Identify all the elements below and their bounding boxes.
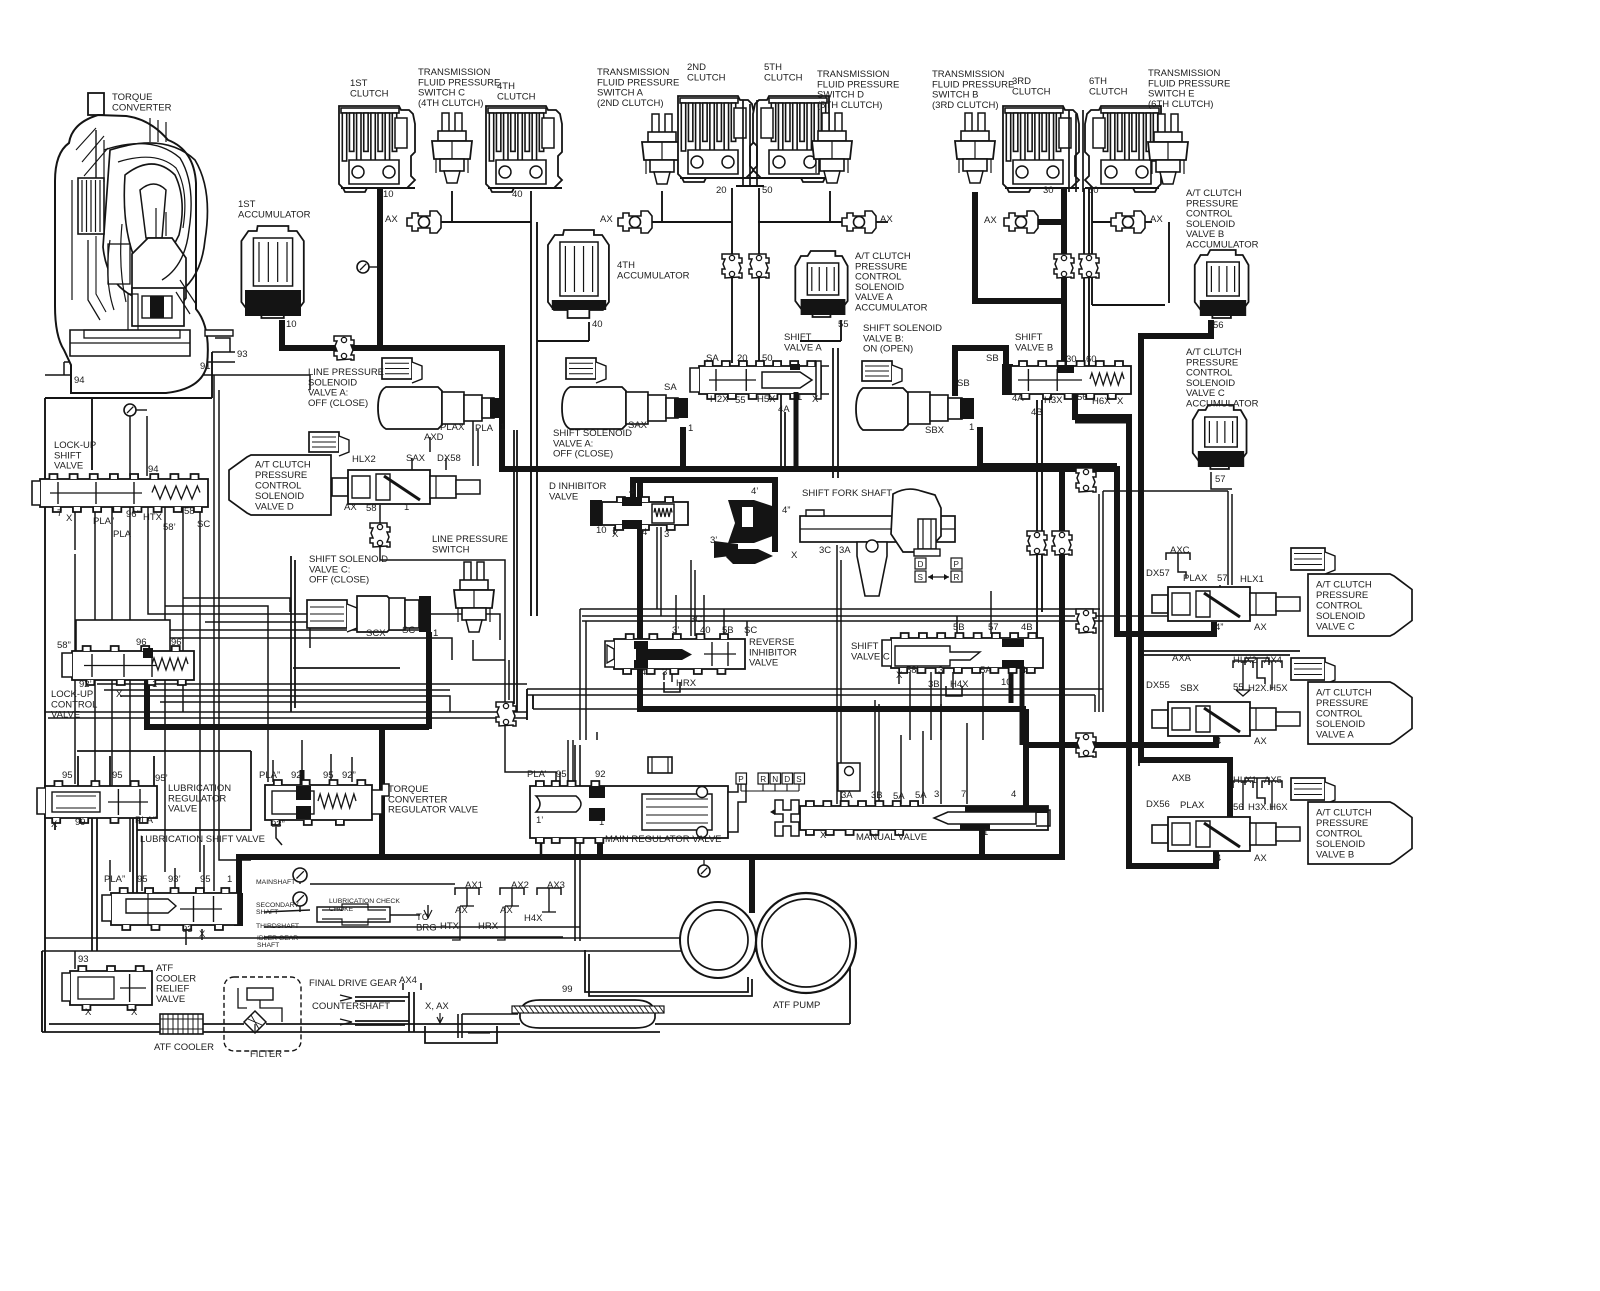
svg-text:PLAX: PLAX — [1183, 573, 1208, 584]
wire thick shift valve B 56 port down right — [1075, 394, 1216, 866]
check ball on 3A line — [838, 763, 860, 791]
svg-text:60: 60 — [1088, 185, 1099, 196]
transmission fluid pressure switch A — [642, 114, 682, 184]
svg-text:AX5: AX5 — [1264, 775, 1282, 786]
manual valve — [800, 801, 1050, 835]
svg-text:H5X: H5X — [757, 394, 776, 405]
svg-text:3’: 3’ — [710, 535, 717, 546]
svg-text:SAX: SAX — [628, 420, 648, 431]
wire bottom section borders — [42, 938, 850, 1032]
svg-text:SB: SB — [957, 378, 970, 389]
wire lock-up control rails right — [97, 684, 527, 712]
svg-text:58’: 58’ — [163, 522, 176, 533]
svg-text:99: 99 — [562, 984, 573, 995]
svg-text:H2X.H5X: H2X.H5X — [1248, 683, 1288, 694]
svg-text:10: 10 — [596, 525, 607, 536]
svg-text:3: 3 — [664, 529, 669, 540]
svg-text:SECONDARY: SECONDARY — [256, 902, 299, 909]
wire thick ATF pump feed — [749, 860, 755, 913]
svg-text:AX4: AX4 — [399, 975, 417, 986]
svg-text:FINAL DRIVE GEAR: FINAL DRIVE GEAR — [309, 978, 397, 989]
svg-text:X: X — [791, 550, 798, 561]
svg-text:VALVE: VALVE — [549, 491, 578, 502]
wire line pressure switch drop — [473, 640, 560, 786]
svg-text:95: 95 — [323, 770, 334, 781]
svg-text:A/T CLUTCH: A/T CLUTCH — [1316, 687, 1372, 698]
svg-text:HRX: HRX — [478, 921, 499, 932]
svg-text:91: 91 — [200, 361, 211, 372]
svg-text:N: N — [772, 775, 778, 784]
svg-text:SBX: SBX — [925, 425, 945, 436]
wire left section borders — [45, 352, 527, 1032]
svg-text:AXC: AXC — [1170, 545, 1190, 556]
HLX2 AX4 brackets — [1233, 661, 1282, 696]
labels top row — [74, 62, 1259, 485]
svg-text:PRESSURE: PRESSURE — [1316, 698, 1368, 709]
svg-text:DX57: DX57 — [1146, 568, 1170, 579]
wire thick SB link — [955, 348, 1006, 396]
svg-text:5B: 5B — [953, 622, 965, 633]
lubrication check choke — [317, 904, 390, 925]
svg-text:94: 94 — [74, 375, 85, 386]
svg-text:SHIFT FORK SHAFT: SHIFT FORK SHAFT — [802, 488, 892, 499]
wire TC regulator feeds — [268, 740, 352, 845]
wire left long vertical pair — [214, 375, 251, 891]
junction fitting y469 bus — [1076, 468, 1096, 492]
svg-text:X: X — [896, 670, 903, 681]
svg-text:VALVE C: VALVE C — [1316, 621, 1355, 632]
svg-text:H3X: H3X — [1044, 395, 1063, 406]
svg-text:CONTROL: CONTROL — [255, 480, 301, 491]
svg-text:3B: 3B — [871, 790, 883, 801]
svg-text:DX58: DX58 — [437, 453, 461, 464]
svg-text:ATF COOLER: ATF COOLER — [154, 1042, 214, 1053]
svg-text:50: 50 — [762, 185, 773, 196]
svg-text:58: 58 — [366, 503, 377, 514]
D inhibitor valve — [590, 497, 688, 530]
labels bottom — [51, 769, 1016, 1060]
svg-text:ACCUMULATOR: ACCUMULATOR — [1186, 240, 1259, 251]
svg-text:57: 57 — [1215, 474, 1226, 485]
shift solenoid valve A — [562, 387, 688, 429]
junction fitting on y348 bus — [334, 336, 354, 360]
shift solenoid valve A connector — [566, 358, 596, 379]
svg-text:96”: 96” — [126, 509, 140, 520]
svg-text:5A: 5A — [893, 791, 905, 802]
svg-text:VALVE D: VALVE D — [255, 501, 294, 512]
svg-text:LUBRICATION SHIFT VALVE: LUBRICATION SHIFT VALVE — [140, 834, 265, 845]
svg-text:VALVE: VALVE — [54, 461, 83, 472]
svg-text:10: 10 — [383, 189, 394, 200]
svg-text:ON (OPEN): ON (OPEN) — [863, 344, 913, 355]
svg-text:CLUTCH: CLUTCH — [350, 88, 389, 99]
svg-text:1’: 1’ — [536, 815, 543, 826]
svg-text:7: 7 — [961, 789, 966, 800]
shift solenoid valve C — [357, 596, 431, 632]
wire lube shift valve feeds — [110, 836, 204, 945]
ATF strainer — [512, 1000, 664, 1028]
pressure gauge lock-up — [124, 404, 147, 476]
AX fitting top 2 — [618, 211, 652, 233]
svg-text:3: 3 — [662, 667, 667, 678]
junction fitting on 20 line — [722, 254, 742, 278]
svg-text:X: X — [820, 830, 827, 841]
svg-text:PLA: PLA — [475, 423, 494, 434]
svg-text:1: 1 — [969, 422, 974, 433]
svg-text:PLA”: PLA” — [104, 874, 125, 885]
svg-text:4”: 4” — [1215, 622, 1223, 633]
svg-text:93’: 93’ — [168, 874, 181, 885]
svg-text:(6TH CLUTCH): (6TH CLUTCH) — [1148, 99, 1213, 110]
svg-text:REGULATOR VALVE: REGULATOR VALVE — [388, 805, 478, 816]
DX55 valve — [1152, 702, 1300, 736]
A/T clutch pressure control solenoid valve B label box — [1308, 802, 1412, 864]
TC BRG tick — [424, 905, 432, 918]
svg-text:4A: 4A — [1012, 393, 1024, 404]
svg-text:HLX2: HLX2 — [1233, 655, 1257, 666]
2nd clutch — [678, 96, 754, 182]
svg-text:VALVE: VALVE — [168, 804, 197, 815]
svg-text:HRX: HRX — [676, 678, 697, 689]
1st clutch — [339, 106, 415, 192]
wire thick main bus y857 — [239, 854, 1065, 860]
labels middle left — [51, 323, 1124, 721]
svg-text:PLAX: PLAX — [440, 422, 465, 433]
svg-text:4: 4 — [1216, 853, 1221, 864]
svg-text:SC: SC — [197, 519, 210, 530]
svg-text:R: R — [954, 573, 960, 582]
svg-text:SC: SC — [744, 625, 757, 636]
svg-text:5A: 5A — [915, 790, 927, 801]
ATF cooler — [160, 1014, 203, 1034]
wire shift valve C port lines — [899, 591, 991, 740]
wire thick manual valve bus y745 — [1026, 709, 1216, 808]
svg-text:(3RD CLUTCH): (3RD CLUTCH) — [932, 100, 999, 111]
svg-text:H4X: H4X — [950, 679, 969, 690]
svg-text:93: 93 — [78, 954, 89, 965]
A/T clutch pressure control solenoid valve B accumulator — [1195, 250, 1249, 318]
transmission fluid pressure switch E — [1148, 114, 1188, 184]
svg-text:1: 1 — [404, 502, 409, 513]
wire thick main right bus y469 — [499, 469, 1214, 634]
svg-text:OFF (CLOSE): OFF (CLOSE) — [553, 449, 613, 460]
wire strainer pair — [575, 745, 580, 941]
svg-text:CONTROL: CONTROL — [1316, 708, 1362, 719]
lock-up shift valve — [32, 474, 208, 512]
2nd/5th center trunk — [736, 100, 764, 186]
torque converter — [55, 93, 233, 393]
svg-text:BRG: BRG — [416, 922, 437, 933]
wire thick lube shift valve 1 — [234, 854, 243, 926]
svg-text:X: X — [812, 394, 819, 405]
svg-text:57: 57 — [988, 622, 999, 633]
svg-text:99: 99 — [75, 817, 86, 828]
svg-text:VALVE A: VALVE A — [784, 342, 822, 353]
junction fitting on 50 line — [749, 254, 769, 278]
wire thick shift valve C 10/4 drops — [1011, 668, 1022, 745]
svg-text:3A: 3A — [841, 790, 853, 801]
svg-text:SC: SC — [402, 625, 415, 636]
svg-text:(2ND CLUTCH): (2ND CLUTCH) — [597, 98, 664, 109]
4th accumulator — [548, 230, 609, 318]
wire clutch drop lines — [531, 188, 1169, 616]
wire cascade to right — [112, 582, 500, 754]
wire manual valve port feeds — [837, 545, 967, 804]
svg-text:VALVE B: VALVE B — [1015, 342, 1053, 353]
wire top row manifold y=222 — [441, 191, 1152, 222]
svg-text:3C: 3C — [819, 545, 831, 556]
wire thick manual valve 1 drop — [979, 828, 985, 857]
svg-text:X: X — [51, 819, 58, 830]
svg-text:AX: AX — [600, 214, 613, 225]
svg-text:DX56: DX56 — [1146, 799, 1170, 810]
svg-text:A/T CLUTCH: A/T CLUTCH — [255, 459, 311, 470]
svg-text:PRESSURE: PRESSURE — [1316, 818, 1368, 829]
svg-text:SOLENOID: SOLENOID — [1316, 719, 1365, 730]
svg-text:CONTROL: CONTROL — [1316, 600, 1362, 611]
svg-text:MAIN REGULATOR VALVE: MAIN REGULATOR VALVE — [605, 834, 722, 845]
svg-text:AX3: AX3 — [547, 880, 565, 891]
A/T clutch pressure control solenoid valve D body — [332, 470, 480, 504]
svg-text:40: 40 — [592, 319, 603, 330]
svg-text:D: D — [918, 560, 924, 569]
wire main regulator port feeds — [536, 732, 597, 855]
shift position indicator DSPR — [915, 558, 962, 582]
AXC port bracket — [1166, 553, 1190, 578]
svg-text:LUBRICATION CHECK: LUBRICATION CHECK — [329, 898, 400, 905]
wire 99 loop pump to strainer — [585, 950, 752, 996]
svg-text:58”: 58” — [57, 640, 71, 651]
svg-text:HTX: HTX — [143, 512, 163, 523]
ATF pump — [680, 893, 856, 993]
AXB port bracket — [1245, 778, 1269, 804]
svg-text:PLA: PLA — [113, 529, 132, 540]
svg-text:1: 1 — [500, 422, 505, 433]
svg-text:CLUTCH: CLUTCH — [687, 72, 726, 83]
svg-text:SAX: SAX — [406, 453, 426, 464]
svg-text:SHAFT: SHAFT — [257, 942, 279, 949]
svg-text:SOLENOID: SOLENOID — [1316, 839, 1365, 850]
svg-text:4: 4 — [641, 667, 646, 678]
svg-text:VALVE B: VALVE B — [1316, 849, 1354, 860]
svg-text:95’: 95’ — [155, 773, 168, 784]
shift solenoid valve C connector — [307, 600, 347, 628]
DX57 valve — [1152, 587, 1300, 621]
wire thick shift valve B top corner — [1075, 419, 1129, 424]
svg-text:R: R — [760, 775, 766, 784]
ATF cooler relief valve — [62, 966, 152, 1010]
svg-text:1: 1 — [599, 817, 604, 828]
junction fitting on 3rd line — [1054, 254, 1074, 278]
svg-text:HTX: HTX — [440, 921, 460, 932]
wire DX55 row box border — [1139, 651, 1300, 766]
svg-text:95: 95 — [556, 769, 567, 780]
svg-text:AX: AX — [880, 214, 893, 225]
lubrication regulator valve — [37, 781, 157, 823]
junction fitting above main regulator — [496, 702, 516, 726]
svg-text:(5TH CLUTCH): (5TH CLUTCH) — [817, 100, 882, 111]
svg-text:1: 1 — [983, 827, 988, 838]
svg-text:7: 7 — [57, 508, 62, 519]
svg-text:HLX2: HLX2 — [352, 454, 376, 465]
junction fitting 4B line — [1027, 531, 1047, 555]
3rd clutch — [1003, 106, 1079, 192]
svg-text:AX: AX — [455, 905, 468, 916]
A/T clutch pressure control solenoid valve D label box — [229, 455, 331, 515]
svg-text:CONVERTER: CONVERTER — [112, 102, 172, 113]
svg-text:PRESSURE: PRESSURE — [255, 470, 307, 481]
svg-text:AX: AX — [1254, 853, 1267, 864]
svg-text:40: 40 — [700, 625, 711, 636]
wire line pressure sol A / valve D area — [380, 417, 505, 640]
A/T clutch pressure control solenoid valve A accumulator — [795, 251, 847, 317]
svg-text:X: X — [85, 1007, 92, 1018]
svg-text:(4TH CLUTCH): (4TH CLUTCH) — [418, 98, 483, 109]
labels right column — [1146, 545, 1288, 864]
DX56 valve — [1152, 817, 1300, 851]
svg-text:ACCUMULATOR: ACCUMULATOR — [238, 209, 311, 220]
svg-text:4: 4 — [1021, 665, 1026, 676]
svg-text:X: X — [116, 689, 123, 700]
svg-text:VALVE: VALVE — [156, 994, 185, 1005]
svg-text:ACCUMULATOR: ACCUMULATOR — [1186, 399, 1259, 410]
svg-text:92: 92 — [595, 769, 606, 780]
svg-text:30: 30 — [1066, 354, 1077, 365]
main regulator valve — [530, 757, 746, 843]
svg-text:4’: 4’ — [751, 486, 758, 497]
5th clutch — [753, 96, 829, 182]
svg-text:S: S — [918, 573, 924, 582]
junction fitting x1062 — [1052, 531, 1072, 555]
svg-text:20: 20 — [716, 185, 727, 196]
AX fitting top 1 — [407, 211, 441, 233]
svg-text:MANUAL VALVE: MANUAL VALVE — [856, 832, 927, 843]
svg-text:3: 3 — [938, 665, 943, 676]
svg-text:PLA”: PLA” — [93, 516, 114, 527]
svg-text:VALVE C: VALVE C — [851, 651, 890, 662]
svg-text:3’: 3’ — [672, 625, 679, 636]
svg-text:94: 94 — [148, 464, 159, 475]
svg-text:10: 10 — [286, 319, 297, 330]
svg-text:95: 95 — [62, 770, 73, 781]
svg-text:3C: 3C — [690, 614, 702, 625]
svg-text:AX2: AX2 — [511, 880, 529, 891]
svg-text:OFF (CLOSE): OFF (CLOSE) — [309, 575, 369, 586]
junction fitting y616 rail — [1076, 609, 1096, 633]
line pressure solenoid valve A — [378, 387, 504, 429]
svg-text:SHAFT: SHAFT — [256, 909, 278, 916]
svg-text:SWITCH: SWITCH — [432, 544, 470, 555]
shift valve B — [1002, 361, 1131, 399]
reverse inhibitor valve — [605, 634, 745, 674]
svg-text:CLUTCH: CLUTCH — [1089, 86, 1128, 97]
wire thick x1062 drop — [1059, 469, 1065, 860]
6th clutch — [1085, 106, 1161, 192]
svg-text:X, AX: X, AX — [425, 1001, 449, 1012]
svg-text:VALVE A: VALVE A — [1316, 729, 1354, 740]
svg-text:H3X.H6X: H3X.H6X — [1248, 802, 1288, 813]
H4X bracket — [946, 686, 962, 696]
A/T clutch pressure control solenoid valve B connector — [1291, 778, 1325, 800]
svg-text:ATF PUMP: ATF PUMP — [773, 1000, 820, 1011]
wire border pair x833 — [833, 348, 838, 478]
svg-text:4A: 4A — [778, 404, 790, 415]
wire D inhibitor and reverse inhibitor port lines — [614, 527, 747, 682]
wire thick D inhibitor bus — [633, 480, 775, 552]
lock-up control valve — [62, 620, 194, 685]
svg-text:50: 50 — [762, 353, 773, 364]
svg-text:SA: SA — [664, 382, 677, 393]
wire right column 57 line — [1211, 472, 1232, 591]
filter — [224, 977, 301, 1051]
svg-text:5B: 5B — [722, 625, 734, 636]
junction fitting below valve D — [370, 523, 390, 547]
wire thick TC reg 92 riser — [300, 770, 305, 786]
svg-text:55: 55 — [838, 319, 849, 330]
labels middle center — [549, 481, 1033, 690]
wire 4B line — [1037, 400, 1042, 638]
svg-text:56: 56 — [1077, 392, 1088, 403]
AX fitting top 4 — [1004, 211, 1038, 233]
svg-text:1: 1 — [688, 423, 693, 434]
svg-text:3B: 3B — [928, 679, 940, 690]
svg-text:95: 95 — [112, 770, 123, 781]
svg-text:IDLER GEAR: IDLER GEAR — [257, 935, 298, 942]
countershaft tank — [425, 1013, 518, 1043]
wire thick 3rd clutch to shift valve B — [975, 180, 1064, 370]
A/T clutch pressure control solenoid valve A connector — [1291, 658, 1325, 680]
svg-text:93: 93 — [237, 349, 248, 360]
svg-text:AXD: AXD — [424, 432, 444, 443]
AX3 bracket — [537, 888, 561, 912]
svg-text:1: 1 — [433, 628, 438, 639]
svg-text:3: 3 — [934, 789, 939, 800]
svg-text:10: 10 — [1001, 677, 1012, 688]
transmission fluid pressure switch B — [955, 113, 995, 183]
AX1 bracket — [452, 888, 479, 940]
A/T clutch pressure control solenoid valve A label box — [1308, 682, 1412, 744]
svg-text:4”: 4” — [782, 505, 790, 516]
svg-text:55: 55 — [735, 395, 746, 406]
A/T clutch pressure control solenoid valve C connector — [1291, 548, 1325, 570]
svg-text:S: S — [796, 775, 802, 784]
svg-text:VALVE: VALVE — [749, 658, 778, 669]
A/T clutch pressure control solenoid valve C label box — [1308, 574, 1412, 636]
svg-text:COUNTERSHAFT: COUNTERSHAFT — [312, 1001, 390, 1012]
wire lockup section inner border — [291, 556, 400, 712]
wire thick shift valve A 1 port drop — [794, 392, 799, 466]
wire thick 1st clutch line — [377, 180, 383, 351]
svg-text:H4X: H4X — [524, 913, 543, 924]
shift valve A — [690, 361, 829, 399]
svg-text:40: 40 — [512, 189, 523, 200]
torque converter regulator valve — [265, 780, 389, 825]
svg-text:ACCUMULATOR: ACCUMULATOR — [855, 303, 928, 314]
4th clutch — [486, 106, 562, 192]
svg-text:SA: SA — [706, 353, 719, 364]
svg-text:SOLENOID: SOLENOID — [255, 491, 304, 502]
svg-text:D: D — [784, 775, 790, 784]
svg-text:P: P — [954, 560, 960, 569]
svg-text:AXA: AXA — [1172, 653, 1192, 664]
svg-text:VALVE: VALVE — [51, 710, 80, 721]
svg-text:OFF (CLOSE): OFF (CLOSE) — [308, 398, 368, 409]
svg-text:4B: 4B — [1021, 622, 1033, 633]
svg-text:H2X: H2X — [710, 394, 729, 405]
svg-text:AX: AX — [385, 214, 398, 225]
svg-text:MAINSHAFT: MAINSHAFT — [256, 879, 295, 886]
svg-text:HLX1: HLX1 — [1233, 775, 1257, 786]
